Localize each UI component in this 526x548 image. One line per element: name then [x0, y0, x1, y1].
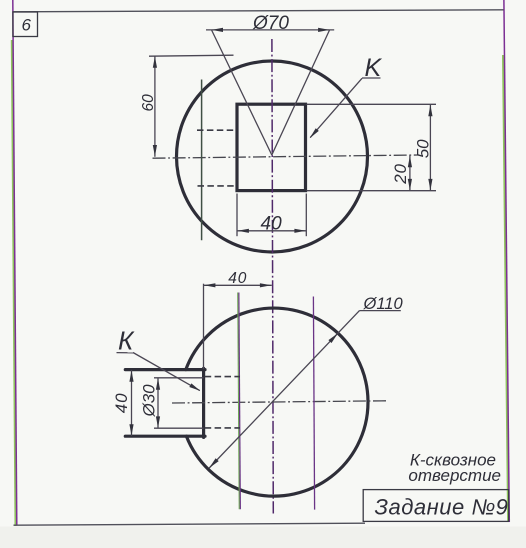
hole edge line left [239, 293, 241, 510]
arrow 20 bottom [408, 179, 412, 191]
svg-text:отверстие: отверстие [408, 466, 501, 485]
bottom view sphere circle (with notch gap) [186, 308, 368, 496]
projection line d70 right [272, 30, 330, 155]
svg-text:Ø70: Ø70 [252, 13, 289, 34]
label K bottom view underline [117, 352, 134, 354]
dim line 40 bottom view top [204, 284, 272, 286]
hidden hole edge lower dash [205, 427, 240, 429]
projection line d70 left [212, 30, 272, 155]
vertical center line (both views) [272, 39, 273, 514]
top view hidden edge lower dash [198, 185, 237, 187]
hole edge line right [313, 297, 314, 510]
arrow 40bv left [204, 283, 216, 287]
extension line 60 top [149, 55, 234, 56]
arrow 50 top [428, 105, 432, 117]
bottom view horizontal center line [172, 401, 389, 403]
extension line 40bv long [203, 284, 205, 369]
arrow 50 bottom [428, 179, 432, 191]
svg-text:К: К [118, 326, 135, 356]
svg-text:6: 6 [22, 16, 32, 35]
arrow d70 left [212, 28, 224, 32]
arrow 40bvl top [129, 370, 133, 382]
hidden hole edge upper dash [205, 376, 240, 378]
extension line 40 right [305, 194, 307, 237]
border green fringe left [12, 40, 16, 526]
arrow K top view [310, 128, 319, 138]
paper lower margin tint [0, 527, 526, 548]
arrow d30 bottom [156, 416, 160, 428]
leader K bottom view [133, 353, 200, 391]
hole d30 lower edge [154, 427, 204, 429]
svg-text:Задание №9: Задание №9 [375, 495, 509, 520]
svg-text:60: 60 [140, 94, 157, 112]
arrow d70 right [318, 28, 330, 32]
extension line 40 left [236, 194, 238, 237]
notch top edge [125, 368, 205, 371]
svg-text:40: 40 [112, 392, 131, 413]
dim line 20 [409, 155, 411, 190]
top view horizontal center line [153, 155, 418, 158]
arrow 40tv right [294, 229, 306, 233]
border green fringe right [503, 55, 508, 522]
label K top view underline [362, 77, 381, 79]
hole d30 upper edge [154, 377, 204, 379]
svg-text:Ø110: Ø110 [363, 295, 404, 313]
top view sphere circle [177, 61, 368, 252]
arrow 60 bottom [153, 145, 157, 157]
dim line d30 [157, 378, 159, 428]
arrow d30 top [156, 378, 160, 390]
arrow 60 top [153, 56, 157, 67]
hole edge line left green fringe [238, 293, 240, 510]
extension line 50 top [307, 103, 437, 105]
leader line d110 [209, 311, 359, 468]
border bottom horizontal line [14, 523, 366, 525]
dim line 40 top view [237, 230, 306, 232]
border right vertical line [504, 0, 509, 522]
svg-text:40: 40 [228, 270, 247, 287]
notch bottom edge [125, 435, 205, 438]
top view square hole outline [237, 104, 306, 190]
page number box [13, 12, 38, 37]
notch right edge [202, 368, 205, 437]
dim line 40 bottom view left [131, 370, 133, 436]
svg-text:40: 40 [261, 213, 283, 234]
title box [363, 490, 509, 522]
leader K top view [310, 78, 362, 137]
arrow 40bv right [260, 283, 272, 287]
extension line 50 bottom [307, 190, 437, 192]
dim line 60 [154, 56, 156, 157]
dim line 50 [429, 104, 431, 190]
top view left silhouette line [201, 80, 203, 241]
arrow d110 upper [328, 333, 338, 343]
svg-text:Ø30: Ø30 [140, 384, 159, 418]
svg-text:20: 20 [391, 163, 410, 185]
underline d110 [360, 310, 401, 312]
border left vertical line [13, 0, 17, 526]
dim line d70 [206, 29, 334, 31]
arrow K bottom view [189, 383, 200, 391]
arrow 40bvl bottom [129, 424, 133, 436]
arrow 40tv left [237, 229, 249, 233]
top view hidden edge upper dash [197, 129, 237, 131]
svg-text:50: 50 [414, 139, 433, 158]
border top horizontal line [13, 10, 504, 12]
arrow d110 lower [209, 458, 219, 468]
arrow 20 top [408, 156, 412, 168]
